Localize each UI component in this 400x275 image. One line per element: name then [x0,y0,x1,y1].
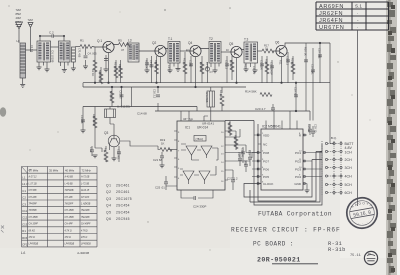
svg-text:7MH10B: 7MH10B [65,190,74,192]
svg-text:C4 .005: C4 .005 [88,52,98,56]
svg-text:.B.Q.: .B.Q. [330,136,337,140]
svg-text:PC BOARD :: PC BOARD : [253,241,294,248]
svg-text:C3: C3 [22,202,26,206]
svg-text:R14 56K: R14 56K [245,90,257,94]
svg-text:Q3: Q3 [106,197,111,201]
svg-text:C27 2.2: C27 2.2 [227,177,238,181]
svg-text:R2 1K: R2 1K [91,69,95,76]
svg-text:PO8: PO8 [263,151,269,155]
svg-text:C1 S1: C1 S1 [30,45,34,53]
svg-text:R16 1K: R16 1K [230,60,234,69]
svg-text:VDD: VDD [263,133,270,137]
svg-text:R-31b: R-31b [328,247,346,253]
svg-text:UR67FN: UR67FN [319,25,344,31]
svg-text:R26 10: R26 10 [307,124,311,133]
svg-text:R18 56K: R18 56K [265,59,269,69]
svg-text:C24 330P: C24 330P [193,205,206,209]
svg-text:FUTABA Corporation: FUTABA Corporation [258,211,332,218]
svg-text:C18 2.2: C18 2.2 [286,56,290,66]
svg-text:L-72.0B: L-72.0B [81,183,90,185]
svg-text:CH.4PF: CH.4PF [65,223,74,226]
svg-text:0x10.15: 0x10.15 [81,190,90,192]
svg-text:C16 1000P: C16 1000P [270,62,274,75]
svg-text:R15 1K: R15 1K [183,58,187,67]
svg-text:7P45PF: 7P45PF [29,209,38,212]
svg-text:L-27.1B: L-27.1B [29,183,38,185]
svg-text:4.7K Ω: 4.7K Ω [65,229,72,232]
svg-text:C25 .01: C25 .01 [155,186,165,190]
svg-text:7M15PF: 7M15PF [65,204,74,206]
svg-text:2SC454: 2SC454 [116,204,130,208]
svg-text:34° Typ: 34° Typ [183,117,193,121]
svg-text:R1: R1 [80,39,84,43]
svg-text:L-40.6B: L-40.6B [65,182,74,185]
svg-text:20R-950021: 20R-950021 [257,257,301,264]
svg-text:A-72.0B: A-72.0B [80,176,90,179]
svg-text:R15: R15 [22,236,28,240]
svg-text:72 MHz: 72 MHz [82,169,92,173]
svg-text:2CH: 2CH [345,158,353,162]
svg-text:R13 47K: R13 47K [219,90,223,100]
svg-text:68 KΩ: 68 KΩ [29,230,36,232]
svg-text:CLOCK: CLOCK [263,182,273,186]
svg-text:C7 10: C7 10 [205,62,209,69]
svg-text:Q3: Q3 [104,131,108,135]
svg-text:T2: T2 [209,37,213,41]
svg-text:Q2: Q2 [106,190,111,194]
svg-text:CF1: CF1 [22,243,28,247]
svg-text:Q4: Q4 [188,41,192,45]
svg-text:CH.1PF: CH.1PF [65,197,74,199]
svg-text:AR69FN: AR69FN [319,4,344,10]
svg-text:JR62FN: JR62FN [319,11,343,17]
svg-text:CH.5PF: CH.5PF [29,190,38,192]
svg-text:A-40.6B: A-40.6B [64,176,74,179]
svg-text:5CH: 5CH [345,183,353,187]
svg-text:C17 2.2: C17 2.2 [225,60,229,70]
svg-text:2SC454: 2SC454 [116,210,130,214]
svg-text:C13 .001: C13 .001 [117,149,121,160]
svg-text:C14 68: C14 68 [137,112,147,116]
svg-text:LF455DB: LF455DB [81,243,91,246]
svg-text:R12: R12 [244,64,248,69]
svg-text:L0: L0 [17,39,21,43]
svg-text:2SC461: 2SC461 [116,190,130,194]
svg-text:4CH: 4CH [345,175,353,179]
svg-text:10.0: 10.0 [244,160,248,166]
svg-text:IC2 M5M041: IC2 M5M041 [262,125,281,129]
svg-text:IC1: IC1 [185,126,190,130]
svg-text:L1: L1 [22,176,26,180]
svg-text:R1: R1 [22,229,26,233]
svg-text:CH.15PF: CH.15PF [65,217,75,219]
svg-text:72M: 72M [28,18,34,22]
svg-text:7P45PF: 7P45PF [29,203,38,206]
svg-text:R21 32K: R21 32K [228,122,232,132]
svg-text:C28: C28 [237,152,241,157]
svg-text:R9 22K: R9 22K [199,62,203,71]
svg-text:470 Ω: 470 Ω [65,236,71,239]
svg-text:C8 2.2: C8 2.2 [149,60,153,68]
svg-text:PO6: PO6 [263,167,269,171]
svg-text:C12: C12 [89,147,93,152]
svg-text:CH.2PF: CH.2PF [29,197,38,199]
svg-text:470 Ω: 470 Ω [81,236,87,239]
svg-text:C9 47: C9 47 [167,65,171,72]
svg-text:C18 .041: C18 .041 [311,64,315,75]
svg-text:·: · [357,11,359,16]
svg-text:CH.45PF: CH.45PF [29,216,39,219]
svg-text:S.1: S.1 [355,4,362,9]
svg-text:CH.33PF: CH.33PF [29,224,39,226]
svg-text:R7 10K: R7 10K [145,60,149,69]
svg-text:C7: C7 [210,70,214,74]
svg-text:R8 56R: R8 56R [154,60,158,69]
svg-text:SFD455B: SFD455B [205,92,208,103]
svg-text:2T: 2T [28,170,32,172]
svg-text:CF1 455: CF1 455 [78,48,81,58]
svg-text:6CH: 6CH [345,191,353,195]
svg-text:·: · [357,25,359,30]
svg-text:Q.1: Q.1 [97,39,102,43]
svg-text:4.7KΩ: 4.7KΩ [81,229,88,232]
svg-text:PO7: PO7 [263,159,269,163]
svg-text:C5 47: C5 47 [189,60,193,67]
svg-text:1CH: 1CH [345,150,353,154]
svg-text:L4.: L4. [21,251,26,255]
svg-text:L2,3: L2,3 [22,182,28,186]
svg-text:560K: 560K [98,70,102,76]
svg-text:R10 1K: R10 1K [291,58,295,67]
svg-text:C1: C1 [22,189,26,193]
svg-text:Q5: Q5 [229,42,233,46]
svg-text:CH.15PF: CH.15PF [65,210,75,212]
svg-text:85M: 85M [16,12,22,16]
svg-text:JR64FN: JR64FN [319,18,343,24]
svg-text:LF455DB: LF455DB [29,243,39,246]
svg-text:PO5: PO5 [263,175,269,179]
svg-text:R3 820K: R3 820K [114,62,118,72]
svg-text:Q5: Q5 [106,210,111,214]
svg-text:Q4: Q4 [106,204,111,208]
svg-text:4–9001B: 4–9001B [77,251,89,255]
svg-text:2SC461: 2SC461 [116,184,130,188]
svg-text:C19 .041: C19 .041 [318,48,322,59]
svg-text:C29 10: C29 10 [314,124,318,133]
svg-text:35 MHz: 35 MHz [49,169,59,173]
svg-text:C19 33: C19 33 [294,87,298,96]
svg-text:C11: C11 [22,209,27,213]
svg-text:1K: 1K [265,47,268,51]
svg-text:2SC1675: 2SC1675 [116,197,132,201]
svg-text:R5: R5 [118,39,122,43]
svg-text:UR-014: UR-014 [197,126,208,130]
svg-text:CH.1PF: CH.1PF [81,197,90,199]
svg-text:C21 68: C21 68 [153,158,162,162]
svg-text:R20 1K: R20 1K [304,47,308,56]
svg-text:47: 47 [121,48,125,52]
svg-text:40M: 40M [16,16,22,20]
svg-text:470 Ω: 470 Ω [29,236,35,239]
svg-text:C10 68: C10 68 [80,115,84,124]
svg-text:LF455DB: LF455DB [65,243,75,246]
svg-text:C26 .06: C26 .06 [241,148,245,158]
svg-text:RECEIVER CIRCUT : FP-R6F: RECEIVER CIRCUT : FP-R6F [231,227,341,234]
svg-text:GND: GND [294,182,302,186]
svg-text:Q1: Q1 [106,184,111,188]
svg-text:C11 20: C11 20 [252,66,256,75]
svg-text:R11: R11 [279,60,283,65]
svg-text:75: 75 [368,252,372,256]
svg-text:1K: 1K [161,142,165,146]
svg-text:C.2: C.2 [49,31,54,35]
svg-text:A-27.12: A-27.12 [28,176,38,179]
svg-text:L3: L3 [128,39,132,43]
svg-text:C12: C12 [22,216,28,220]
svg-text:C16 2.2: C16 2.2 [153,89,157,99]
svg-text:Q6: Q6 [275,41,279,45]
svg-text:Q2: Q2 [152,41,156,45]
svg-text:2SC945: 2SC945 [116,217,130,221]
svg-text:Q6: Q6 [106,217,111,221]
svg-text:T.1: T.1 [168,37,172,41]
svg-text:C13: C13 [22,222,28,226]
svg-text:1.HZK5B: 1.HZK5B [81,204,91,206]
svg-text:72M: 72M [16,8,22,12]
svg-text:75.11: 75.11 [350,254,361,258]
svg-text:(L-2113D): (L-2113D) [117,105,130,109]
svg-text:C20 4.7: C20 4.7 [255,107,266,111]
svg-text:R30 220K: R30 220K [92,114,96,126]
svg-text:CH.45PF: CH.45PF [81,223,91,226]
svg-text:T.3: T.3 [244,38,248,42]
svg-text:R5 1K: R5 1K [109,92,113,99]
svg-text:R11 680: R11 680 [104,148,108,158]
svg-text:40 MHz: 40 MHz [65,169,75,173]
svg-text:C15 100: C15 100 [260,60,264,70]
svg-text:7M24PF: 7M24PF [81,209,90,212]
svg-text:3CH: 3CH [345,166,353,170]
svg-text:(78AJ): (78AJ) [196,137,204,141]
svg-text:7M24PF: 7M24PF [81,216,90,219]
svg-text:C6.047: C6.047 [119,91,123,100]
svg-text:C2: C2 [22,196,26,200]
svg-text:R4: R4 [98,77,102,81]
svg-text:R6 1K: R6 1K [118,64,122,71]
svg-text:D1 1S10B: D1 1S10B [51,51,55,63]
